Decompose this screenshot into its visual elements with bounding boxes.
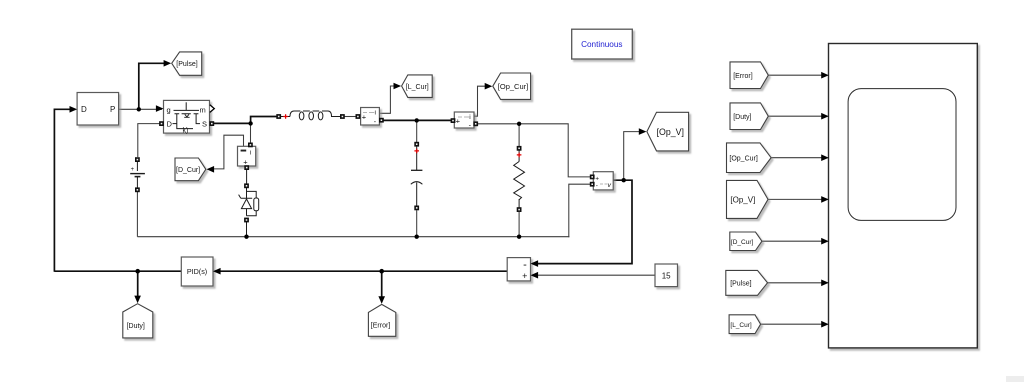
capacitor top plate (411, 169, 422, 171)
sum block (507, 258, 538, 281)
wire: cap branch from rail (416, 120, 418, 143)
PWM generator block (D/P) (70, 93, 119, 126)
Op_V goto tag (639, 112, 689, 151)
Op_V from tag (727, 180, 769, 218)
junction node: S rail (248, 121, 252, 125)
Op_Cur from tag (727, 143, 772, 173)
wire: node up to inductor input (251, 117, 277, 125)
wire: left riser up to D input of PWM generator (54, 109, 75, 271)
svg-text:P: P (110, 105, 115, 114)
wire: voltage measurement v output to feedback corner (532, 180, 632, 263)
scope input 5 arrowhead (821, 238, 829, 245)
svg-text:[Pulse]: [Pulse] (730, 281, 751, 288)
svg-text:D: D (167, 120, 173, 129)
svg-text:[L_Cur]: [L_Cur] (406, 84, 429, 91)
junction node: resistor bottom bus (517, 235, 521, 239)
junction node: P output branch (137, 107, 141, 111)
svg-text:-: - (596, 183, 598, 190)
wire: Op_Cur from-tag to scope input 3 (771, 157, 827, 159)
L measurement minus port (379, 118, 384, 123)
wire: battery bottom down to ground bus (136, 192, 138, 237)
svg-text:D: D (81, 105, 87, 114)
scope input 7 arrowhead (821, 321, 829, 328)
wire: drop to Duty goto (137, 271, 139, 301)
svg-text:[Error]: [Error] (371, 323, 391, 330)
L measurement plus port (356, 114, 361, 119)
battery short plate (135, 176, 141, 178)
wire: bottom bus (137, 236, 569, 238)
Op_Cur goto tag (485, 73, 531, 99)
wire: L_Cur from-tag to scope input 7 (761, 323, 828, 325)
resistor bottom port (517, 207, 522, 212)
svg-text:-: - (523, 259, 527, 271)
Pulse from tag (726, 270, 768, 295)
junction node: sum wire to Error (379, 269, 384, 274)
junction node: resistor top (517, 122, 521, 126)
MOSFET m port chevron (210, 105, 215, 113)
scope input 1 arrowhead (821, 72, 829, 79)
wire: rail Op measurement to corner and down to voltage measurement plus (476, 124, 591, 177)
svg-text:i: i (375, 110, 376, 117)
MOSFET icon (173, 102, 201, 128)
junction node: cap top (415, 118, 419, 122)
svg-text:k): k) (183, 128, 189, 135)
faint corner smudge (1006, 376, 1024, 382)
voltage measurement block (590, 172, 613, 190)
constant 15 block (655, 264, 678, 287)
svg-text:+: + (243, 157, 248, 166)
diode triangle (241, 199, 251, 209)
svg-text:i: i (250, 150, 251, 157)
D_Cur goto tag (175, 158, 214, 181)
scope screen (848, 89, 956, 221)
svg-text:15: 15 (662, 272, 671, 281)
wire: Op_V from-tag to scope input 4 (768, 198, 828, 200)
wire: inductor output to L current measurement (343, 116, 357, 118)
capacitor curved plate (411, 182, 423, 185)
Error from tag (730, 62, 768, 89)
powergui Continuous block (572, 29, 633, 59)
capacitor top port (414, 142, 419, 147)
wire: resistor branch from rail (518, 124, 520, 148)
scope block (829, 44, 978, 348)
junction node: cap bottom bus (415, 235, 419, 239)
junction node: v output branch (622, 178, 626, 182)
Pulse goto tag (164, 52, 202, 75)
svg-text:[Op_Cur]: [Op_Cur] (729, 155, 757, 162)
battery long plate (130, 173, 145, 175)
wire: D_Cur from-tag to scope input 5 (762, 240, 828, 242)
svg-text:+: + (362, 113, 367, 122)
resistor top port (517, 146, 522, 151)
svg-text:[Error]: [Error] (733, 73, 753, 80)
resistor (514, 146, 525, 237)
wire: sum output to PID input (y=271) (215, 270, 508, 272)
diode top port (244, 183, 249, 188)
junction node: PID output to Duty (135, 269, 140, 274)
wire: constant 15 to sum plus input (532, 274, 656, 276)
Error goto tag (368, 296, 395, 336)
voltage measurement plus port (590, 175, 595, 180)
battery bottom port (135, 187, 140, 192)
svg-text:[D_Cur]: [D_Cur] (731, 239, 754, 246)
junction node: diode bottom bus (244, 235, 248, 239)
Op measurement plus port (451, 118, 456, 123)
wire: D current measurement to diode top (246, 167, 248, 185)
MOSFET block (156, 100, 214, 134)
wire: drop to Error goto (381, 271, 383, 301)
DC voltage source (battery) (130, 157, 145, 192)
D_Cur from tag (730, 232, 762, 251)
inductor left port (276, 114, 281, 119)
MOSFET S port (209, 121, 214, 126)
wire: capacitor bottom to bus (416, 210, 418, 237)
wire: resistor bottom to bus (518, 212, 520, 237)
L current measurement block (356, 108, 384, 127)
svg-text:+: + (595, 175, 599, 182)
current measurement bottom port (244, 165, 249, 170)
Op current measurement block (451, 112, 479, 130)
svg-text:[Op_V]: [Op_V] (657, 127, 684, 137)
wire: MOSFET D port to battery top (138, 124, 161, 157)
diode anode lead (246, 209, 248, 216)
Op measurement minus port (473, 121, 478, 126)
svg-text:[D_Cur]: [D_Cur] (176, 167, 200, 174)
scope input 3 arrowhead (821, 154, 829, 161)
wire: branch up to Op_V goto (624, 132, 641, 181)
svg-text:+: + (131, 167, 135, 173)
inductor right port (340, 114, 345, 119)
wire: Op_Cur measurement signal up to Op_Cur goto (474, 86, 487, 116)
svg-text:+: + (456, 117, 461, 126)
svg-text:v: v (608, 182, 612, 189)
svg-text:[Op_Cur]: [Op_Cur] (498, 82, 528, 91)
capacitor bottom port (414, 206, 419, 211)
svg-text:i: i (469, 114, 470, 121)
svg-text:[L_Cur]: [L_Cur] (730, 322, 752, 329)
wire: rail L measurement minus to Op current measurement plus (382, 119, 453, 121)
diode bottom port (244, 218, 249, 223)
svg-text:S: S (202, 120, 207, 129)
svg-text:[Duty]: [Duty] (733, 114, 751, 121)
snubber branch (247, 187, 257, 216)
svg-text:[Pulse]: [Pulse] (176, 61, 197, 68)
wire: D current measurement signal to D_Cur goto (209, 135, 244, 169)
wire: L measurement signal up to L_Cur goto (380, 86, 396, 113)
wire: PID output left run to riser corner (54, 270, 181, 272)
diode with snubber (239, 183, 259, 222)
wire: Pulse from-tag to scope input 6 (768, 282, 828, 284)
svg-text:+: + (522, 271, 527, 281)
voltage measurement minus port (590, 182, 595, 187)
svg-text:[Duty]: [Duty] (127, 323, 145, 330)
snubber resistor body (254, 198, 259, 211)
Duty goto tag (123, 296, 153, 338)
battery top port (135, 157, 140, 162)
current measurement block (diode branch) (238, 143, 256, 171)
wire: node down to D current measurement (250, 123, 252, 144)
wire: bus end riser to voltage measurement minus (569, 184, 591, 237)
resistor zigzag (514, 162, 525, 200)
capacitor (411, 142, 423, 237)
scope input 6 arrowhead (821, 280, 829, 287)
current measurement top port (248, 143, 253, 148)
scope input 4 arrowhead (821, 196, 829, 203)
svg-text:m: m (200, 106, 206, 115)
wire: MOSFET S port to node (213, 122, 251, 124)
svg-text:PID(s): PID(s) (187, 267, 207, 276)
wire: Error from-tag to scope input 1 (768, 74, 827, 76)
PID(s) controller block (181, 257, 220, 286)
svg-text:[Op_V]: [Op_V] (730, 195, 755, 204)
diode cathode bar (239, 195, 253, 199)
MOSFET D port (159, 121, 164, 126)
inductor coil (290, 111, 341, 117)
svg-text:Continuous: Continuous (581, 40, 622, 49)
wire: Duty from-tag to scope input 2 (768, 115, 827, 117)
wire: branch up to Pulse goto (139, 63, 166, 109)
inductor (276, 111, 344, 120)
wire: PWM P output to MOSFET g input (118, 108, 162, 110)
L_Cur goto tag (394, 75, 433, 98)
Duty from tag (730, 103, 768, 130)
scope input 2 arrowhead (821, 113, 829, 120)
wire: diode bottom to bus (246, 222, 248, 237)
L_Cur from tag (729, 315, 761, 334)
svg-text:g: g (167, 106, 171, 115)
